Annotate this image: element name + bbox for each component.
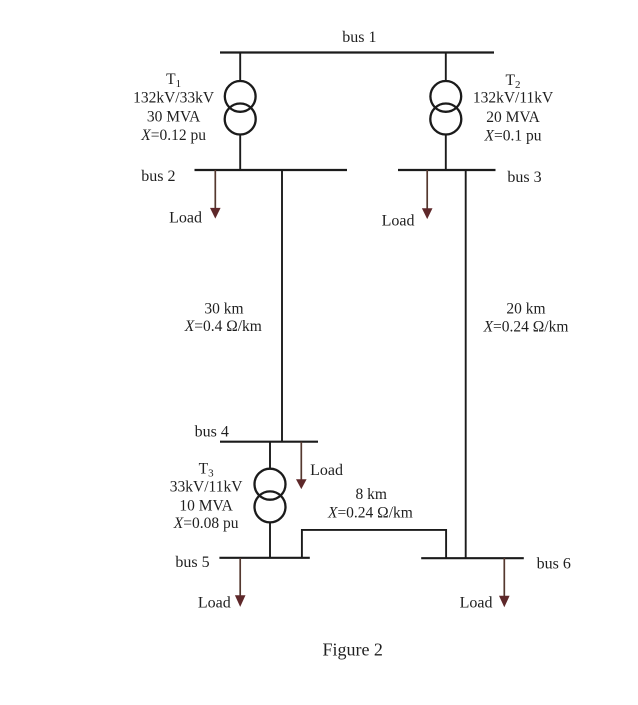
label 20 km line (483, 301, 569, 336)
svg-text:Figure 2: Figure 2 (322, 640, 383, 660)
wire bus1 to T2 (445, 53, 447, 82)
svg-text:132kV/11kV: 132kV/11kV (473, 89, 554, 106)
load arrow at bus 5 (239, 558, 241, 596)
wire 30 km line bus2-bus4 (281, 170, 283, 442)
wire bus4 to T3 (269, 442, 271, 469)
svg-text:T3: T3 (199, 461, 214, 480)
svg-text:bus 2: bus 2 (141, 168, 175, 185)
svg-text:Load: Load (310, 462, 343, 479)
svg-text:X=0.24 Ω/km: X=0.24 Ω/km (327, 505, 413, 522)
transformer T3 (255, 469, 286, 500)
wire T2 to bus3 (445, 134, 447, 170)
svg-text:X=0.08 pu: X=0.08 pu (173, 515, 239, 532)
svg-text:X=0.24 Ω/km: X=0.24 Ω/km (483, 318, 569, 335)
wire 8 km line bus5-bus6 (302, 530, 446, 558)
label T2 values (473, 72, 554, 144)
svg-text:132kV/33kV: 132kV/33kV (133, 89, 215, 106)
transformer T2 (430, 81, 461, 112)
load arrow at bus 3 (426, 170, 428, 209)
load arrow at bus 2 (214, 170, 216, 209)
wire T1 to bus2 (239, 134, 241, 170)
svg-text:X=0.1 pu: X=0.1 pu (484, 127, 542, 144)
bus 4 (220, 441, 318, 443)
svg-text:Load: Load (198, 594, 231, 611)
svg-text:bus 1: bus 1 (342, 29, 376, 46)
svg-text:10 MVA: 10 MVA (179, 497, 233, 514)
svg-text:bus 6: bus 6 (537, 555, 571, 572)
svg-text:X=0.4 Ω/km: X=0.4 Ω/km (184, 318, 262, 335)
svg-text:T1: T1 (166, 71, 181, 90)
svg-text:20 MVA: 20 MVA (486, 109, 540, 126)
bus 1 (220, 51, 494, 53)
svg-text:20 km: 20 km (506, 301, 545, 318)
transformer T1 (225, 81, 256, 112)
wire bus1 to T1 (239, 53, 241, 82)
svg-text:T2: T2 (506, 72, 521, 91)
bus 5 (219, 557, 309, 559)
wire T3 to bus5 (269, 522, 271, 558)
svg-text:30 MVA: 30 MVA (147, 108, 201, 125)
svg-text:bus 3: bus 3 (507, 169, 541, 186)
label T1 values (133, 71, 215, 144)
svg-text:bus 5: bus 5 (175, 554, 209, 571)
wire 20 km line bus3-bus6 (465, 170, 467, 558)
bus 2 (195, 169, 348, 171)
label 30 km line (184, 300, 262, 335)
svg-text:30 km: 30 km (204, 300, 243, 317)
svg-text:X=0.12 pu: X=0.12 pu (140, 127, 206, 144)
svg-text:Load: Load (169, 209, 202, 226)
label 8 km line (327, 486, 413, 521)
svg-text:Load: Load (382, 212, 415, 229)
svg-text:Load: Load (460, 595, 493, 612)
load arrow at bus 4 (300, 442, 302, 481)
load arrow at bus 6 (503, 558, 505, 597)
label T3 values (170, 461, 243, 532)
bus 3 (398, 169, 496, 171)
bus 6 (421, 557, 524, 559)
svg-text:bus 4: bus 4 (195, 424, 229, 441)
svg-text:8 km: 8 km (355, 486, 386, 503)
svg-text:33kV/11kV: 33kV/11kV (170, 478, 243, 495)
